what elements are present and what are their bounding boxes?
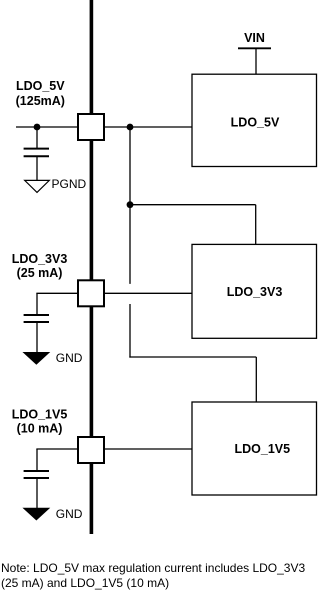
- svg-text:LDO_5V: LDO_5V: [231, 115, 280, 129]
- svg-text:GND: GND: [56, 507, 83, 521]
- svg-text:(10 mA): (10 mA): [17, 422, 63, 436]
- svg-text:LDO_1V5: LDO_1V5: [235, 442, 291, 456]
- svg-text:VIN: VIN: [244, 31, 265, 45]
- svg-text:LDO_5V: LDO_5V: [16, 79, 65, 93]
- svg-text:GND: GND: [56, 351, 83, 365]
- svg-text:LDO_3V3: LDO_3V3: [12, 252, 68, 266]
- svg-text:LDO_1V5: LDO_1V5: [12, 408, 68, 422]
- svg-text:(125mA): (125mA): [16, 94, 65, 108]
- svg-text:LDO_3V3: LDO_3V3: [227, 285, 283, 299]
- svg-text:(25 mA): (25 mA): [17, 266, 63, 280]
- svg-text:PGND: PGND: [52, 177, 87, 191]
